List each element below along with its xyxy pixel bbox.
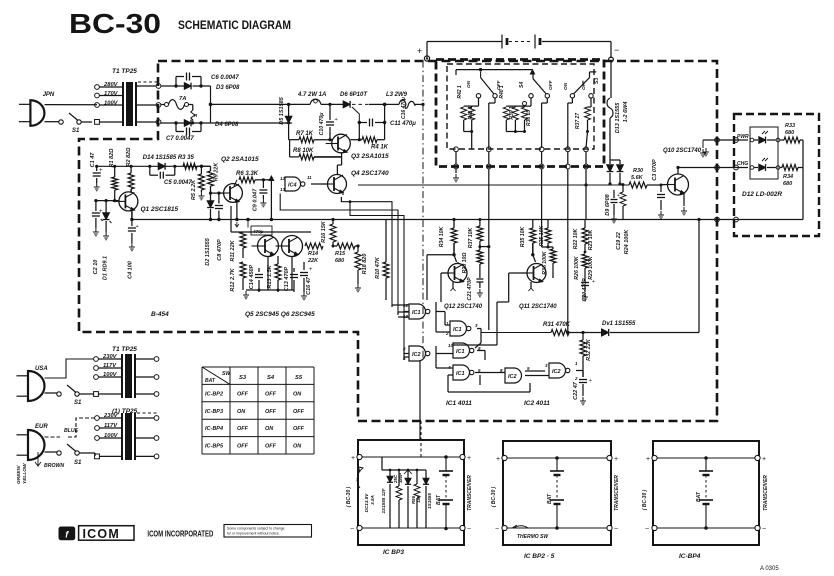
supply arrow — [269, 176, 274, 221]
svg-text:5.6K: 5.6K — [631, 175, 644, 181]
diode D4 6P08 — [161, 120, 239, 128]
svg-text:C6 0.0047: C6 0.0047 — [211, 75, 239, 81]
resistor R16 15K — [321, 218, 336, 246]
resistor R41 — [464, 106, 475, 148]
gate IC1a — [403, 303, 430, 319]
wire Q12 base — [427, 255, 454, 302]
LED PWR D12a — [750, 131, 780, 143]
svg-text:170V: 170V — [104, 91, 119, 97]
svg-text:2: 2 — [574, 376, 578, 381]
transformer T3 primary — [95, 416, 122, 459]
capacitor C7 bridge — [166, 123, 201, 142]
label 280V — [103, 82, 119, 88]
wire switch col 3 — [542, 152, 553, 247]
diode D14 — [158, 163, 165, 170]
switch unit pin circles inner — [454, 147, 589, 152]
svg-text:−: − — [614, 526, 618, 533]
label IC2 4011 — [524, 400, 550, 407]
node battery minus — [609, 45, 620, 62]
transformer T2 core — [122, 354, 135, 398]
svg-text:−: − — [467, 526, 471, 533]
svg-text:230V: 230V — [103, 413, 119, 419]
logo ICOM mark — [59, 527, 76, 541]
resistor R23 10K — [588, 229, 594, 251]
wire CHG row — [678, 165, 748, 170]
capacitor C5 0.0047 — [150, 166, 193, 186]
wire node to battery plus — [421, 61, 424, 358]
wire gate d to IC2b — [448, 373, 530, 393]
svg-text:+: + — [335, 117, 338, 123]
wire Q1 emitter — [131, 211, 133, 220]
wire plug JPN top — [45, 104, 98, 106]
svg-text:IC-BP4: IC-BP4 — [205, 426, 223, 432]
svg-text:R40 1: R40 1 — [499, 85, 505, 99]
resistor R7 1K — [289, 131, 333, 143]
label PWR — [737, 134, 749, 140]
svg-text:D14 1S1585 R3 35: D14 1S1585 R3 35 — [143, 155, 195, 161]
switch S1 EUR — [45, 444, 96, 466]
label IC-BP4 — [679, 553, 701, 560]
svg-text:R10 47K: R10 47K — [375, 256, 381, 279]
resistor R32 22K — [580, 333, 592, 378]
svg-text:S1: S1 — [74, 460, 82, 466]
svg-text:Q10 2SC1740: Q10 2SC1740 — [663, 148, 702, 154]
wire battery top — [427, 42, 611, 59]
resistor R14 22K — [302, 243, 323, 264]
title BC-30 — [69, 8, 161, 39]
diode D8 vertical — [610, 160, 623, 186]
svg-text:C7 0.0047: C7 0.0047 — [166, 136, 194, 142]
label IC BP2-5 — [524, 553, 555, 560]
plug EUR — [17, 424, 49, 460]
wire LED right rail — [802, 140, 804, 220]
capacitor C6 bridge — [176, 73, 239, 87]
svg-text:OFF: OFF — [293, 409, 305, 415]
wire IC2c out — [576, 371, 583, 378]
svg-text:R31 470K: R31 470K — [543, 322, 571, 328]
svg-text:IC-BP4: IC-BP4 — [679, 553, 701, 560]
capacitor C12 boxed — [248, 220, 272, 236]
wire secondary top row — [161, 84, 178, 87]
wire bus y232 — [231, 206, 311, 232]
gate IC2c — [545, 361, 578, 381]
label B-454 — [151, 311, 169, 318]
label D13 1S1555 — [615, 102, 621, 134]
svg-text:IC1: IC1 — [456, 349, 465, 355]
svg-text:C21 470P: C21 470P — [467, 277, 473, 301]
gate IC2a — [403, 346, 430, 361]
label D9 6P08 — [605, 193, 611, 215]
svg-text:D5 1S1585: D5 1S1585 — [279, 96, 285, 124]
resistor R8 10K — [290, 140, 342, 160]
svg-text:+: + — [99, 209, 103, 215]
transistor Q3 2SA1015 — [326, 134, 389, 160]
svg-text:R15: R15 — [335, 251, 346, 257]
svg-text:R25 10K: R25 10K — [539, 225, 545, 247]
svg-text:−: − — [495, 526, 499, 533]
resistor R9 22K — [208, 162, 220, 193]
wire USA top — [45, 359, 95, 378]
svg-text:+: + — [592, 279, 595, 285]
svg-text:TRANSCEIVER: TRANSCEIVER — [614, 475, 620, 511]
svg-text:11: 11 — [307, 175, 312, 180]
wire top rail left block — [95, 165, 210, 168]
svg-text:1S1555: 1S1555 — [427, 493, 432, 509]
capacitor C11 470P — [352, 107, 416, 127]
svg-text:( BC-30 ): ( BC-30 ) — [346, 486, 352, 507]
label D14 R3 — [143, 155, 195, 161]
svg-text:PWR: PWR — [737, 134, 749, 140]
wire gate inputs from left — [392, 305, 409, 357]
svg-text:100V: 100V — [103, 372, 118, 378]
resistor R15 680 — [332, 243, 360, 264]
gnd mark near label — [703, 148, 709, 156]
capacitor C14 450P — [249, 264, 263, 292]
capacitor C21 470P — [451, 277, 484, 301]
resistor R28 100 — [462, 247, 483, 278]
svg-text:+: + — [496, 456, 500, 463]
svg-text:−: − — [762, 526, 766, 533]
svg-text:ON: ON — [265, 426, 274, 432]
resistor R37 27 — [575, 98, 591, 148]
label switch S2 ON OFF — [466, 79, 502, 90]
label T1 TP25 — [112, 68, 137, 75]
label L2 6W4 — [623, 102, 629, 123]
svg-text:Q2 2SA1015: Q2 2SA1015 — [221, 156, 259, 163]
gate IC1b — [445, 321, 478, 336]
inductor L3 2W9 — [385, 92, 423, 108]
wire chg bus circles — [715, 217, 739, 222]
resistor R11 22K — [230, 232, 246, 262]
svg-text:A 0305: A 0305 — [760, 566, 779, 572]
wire IC2 to box1 — [419, 361, 421, 440]
wire Q12 collector to bus — [404, 262, 458, 360]
resistor R25 10K — [539, 220, 551, 249]
wire L-run C — [349, 200, 404, 349]
wire PWR row — [700, 138, 748, 157]
svg-text:R18 820: R18 820 — [362, 254, 368, 275]
wire Q1 base — [94, 199, 119, 202]
resistor R33 680 — [780, 123, 803, 143]
svg-text:117V: 117V — [104, 423, 118, 429]
diode D7 vertical — [607, 160, 614, 186]
svg-text:1-2 6W4: 1-2 6W4 — [623, 102, 629, 123]
svg-text:680: 680 — [335, 258, 344, 264]
svg-text:D1 RD9.1: D1 RD9.1 — [103, 256, 109, 280]
svg-text:S5: S5 — [295, 375, 303, 381]
svg-text:IC1: IC1 — [412, 310, 421, 316]
wire switch col 2 — [487, 152, 490, 330]
switch S1 USA — [45, 385, 95, 406]
gate IC1d — [447, 365, 481, 380]
svg-text:IC2 4011: IC2 4011 — [524, 400, 550, 407]
wire minus feed — [610, 62, 612, 98]
resistor R38 15 — [515, 102, 532, 134]
transformer T1 secondary — [136, 82, 161, 124]
svg-text:D12 LD-002R: D12 LD-002R — [742, 191, 782, 198]
svg-text:+: + — [309, 267, 313, 273]
gate IC2b — [500, 366, 530, 383]
capacitor C2 10 — [92, 201, 103, 275]
resistor R4 1K — [350, 104, 388, 150]
transistor Q2 2SA1015 — [218, 156, 259, 202]
svg-text:SCHEMATIC DIAGRAM: SCHEMATIC DIAGRAM — [178, 20, 291, 32]
svg-text:IC4: IC4 — [288, 182, 297, 188]
svg-text:R4 1K: R4 1K — [371, 145, 389, 151]
svg-text:C5 0.0047: C5 0.0047 — [164, 180, 192, 186]
svg-text:+: + — [417, 46, 422, 56]
svg-text:100V: 100V — [104, 433, 119, 439]
svg-text:OFF: OFF — [265, 444, 277, 450]
svg-text:R16 15K: R16 15K — [321, 220, 327, 243]
transformer T2 primary — [94, 357, 122, 397]
wire Q2 emitter — [235, 202, 239, 228]
svg-text:T1 TP25: T1 TP25 — [112, 346, 137, 353]
svg-text:C22 47: C22 47 — [573, 381, 579, 400]
label BROWN — [44, 463, 64, 469]
svg-text:R6 3.3K: R6 3.3K — [236, 171, 259, 177]
switch S2 — [476, 72, 497, 149]
svg-text:R2 82Ω: R2 82Ω — [126, 147, 132, 167]
wire IC4 to Q4 — [311, 183, 328, 185]
transformer T3 secondary — [135, 413, 159, 459]
resistor R35 10K — [520, 220, 536, 263]
svg-text:−: − — [645, 526, 649, 533]
wire Q10 emitter gnd — [681, 193, 687, 215]
battery B1 — [502, 35, 540, 49]
diode D6 6P10T — [340, 92, 386, 108]
wire gate a out — [436, 312, 450, 333]
wire Q5 Q6 emitters — [243, 257, 294, 299]
wire Q10 collector — [676, 166, 679, 174]
transistor Q1 2SC1815 — [113, 192, 179, 213]
fine print box — [224, 525, 312, 538]
svg-text:R32 22K: R32 22K — [586, 338, 592, 361]
svg-text:280V: 280V — [103, 82, 119, 88]
wire IC2b to IC2c — [525, 371, 549, 376]
capacitor C4 100 — [128, 220, 139, 279]
label GREEN YELLOW — [16, 452, 41, 484]
wire EUR top — [45, 418, 96, 437]
svg-text:+: + — [614, 456, 618, 463]
svg-text:D2 1S1555: D2 1S1555 — [205, 237, 211, 265]
svg-text:OFF: OFF — [293, 426, 305, 432]
svg-text:for or improvement without not: for or improvement without notice. — [227, 532, 280, 536]
svg-text:D3 6P08: D3 6P08 — [216, 85, 240, 91]
indicator inner box — [750, 127, 778, 179]
battery box IC BP3 — [346, 421, 473, 545]
svg-text:13: 13 — [280, 187, 286, 192]
svg-text:SW: SW — [222, 371, 231, 377]
wire main bus y219 — [130, 218, 803, 221]
svg-text:3.5A: 3.5A — [370, 495, 375, 505]
logo ICOM boxed — [79, 526, 134, 541]
battery box IC-BP4 — [642, 441, 769, 545]
svg-text:−: − — [614, 45, 619, 55]
resistor R31 470K — [543, 322, 601, 336]
battery box IC BP2-5 — [491, 441, 620, 545]
svg-text:EUR: EUR — [35, 424, 48, 430]
label T3 TP25 — [112, 408, 138, 415]
subtitle SCHEMATIC DIAGRAM — [178, 20, 291, 32]
capacitor C3 070P — [652, 159, 665, 219]
svg-text:( BC-30 ): ( BC-30 ) — [642, 489, 648, 510]
svg-text:1S1555 12F: 1S1555 12F — [381, 488, 386, 513]
svg-text:( BC-30 ): ( BC-30 ) — [491, 486, 497, 507]
svg-text:R24 100K: R24 100K — [624, 229, 630, 255]
label C16 470u — [401, 97, 407, 119]
svg-text:BROWN: BROWN — [44, 463, 64, 469]
svg-text:Some components subject to cha: Some components subject to change — [227, 527, 285, 531]
diode Dv1 1S1555 — [602, 218, 701, 336]
switch unit outer dashed box — [436, 60, 604, 167]
svg-text:S3: S3 — [594, 78, 600, 84]
svg-text:IC1 4011: IC1 4011 — [446, 400, 472, 407]
resistor R39 — [506, 106, 518, 133]
fuse 7A — [161, 96, 198, 123]
svg-text:IC BP3: IC BP3 — [383, 549, 404, 556]
svg-text:R11 22K: R11 22K — [230, 239, 236, 261]
svg-text:+: + — [467, 455, 471, 462]
svg-text:R26 100K: R26 100K — [574, 255, 580, 280]
label T3 100V — [104, 433, 119, 439]
logo ICOM INCORPORATED — [147, 529, 213, 539]
svg-text:+: + — [589, 378, 592, 384]
LED CHG D12b — [750, 158, 780, 171]
svg-text:10: 10 — [448, 343, 454, 348]
svg-text:S1: S1 — [74, 400, 82, 406]
switch S1 (JPN) — [59, 113, 92, 134]
label C19 22 — [616, 232, 622, 250]
resistor R40 — [499, 85, 531, 131]
svg-text:R37 10K: R37 10K — [468, 227, 474, 249]
svg-text:22K: 22K — [307, 258, 319, 264]
svg-text:ON: ON — [293, 444, 302, 450]
svg-text:OFF: OFF — [237, 444, 249, 450]
svg-text:+: + — [646, 456, 650, 463]
transformer T1 primary terminals — [95, 85, 123, 125]
svg-text:100V: 100V — [104, 101, 119, 107]
wire switch feed — [456, 68, 535, 75]
capacitor C19 22 — [611, 190, 621, 223]
svg-text:680: 680 — [783, 181, 792, 187]
svg-text:C2 10: C2 10 — [93, 260, 99, 275]
capacitor C10 470u — [319, 103, 338, 141]
capacitor C20 470P — [581, 278, 595, 302]
svg-text:T1 TP25: T1 TP25 — [112, 68, 137, 75]
label T3 230V — [103, 413, 119, 419]
capacitor C13 470P — [284, 266, 298, 292]
diode D2 1S1555 — [205, 193, 214, 266]
svg-text:CHG: CHG — [737, 161, 748, 167]
svg-text:C13 470P: C13 470P — [284, 266, 290, 291]
svg-text:B-454: B-454 — [151, 311, 169, 318]
capacitor C22 47 — [573, 378, 592, 405]
svg-text:D13 1S1555: D13 1S1555 — [615, 102, 621, 134]
svg-text:S3: S3 — [239, 375, 247, 381]
svg-text:OFF: OFF — [265, 409, 277, 415]
wire L-run A — [341, 197, 392, 305]
label 100V — [104, 101, 119, 107]
svg-text:R5 2.2K: R5 2.2K — [191, 179, 197, 200]
resistor R26 100K — [574, 251, 588, 280]
resistor R42 — [457, 85, 479, 131]
resistor R34b 10K — [439, 218, 457, 262]
svg-text:S4: S4 — [267, 375, 275, 381]
svg-text:USA: USA — [35, 366, 48, 372]
svg-text:ON: ON — [466, 80, 472, 88]
transistor Q10 2SC1740 — [661, 148, 702, 195]
svg-text:THERMO SW: THERMO SW — [517, 534, 549, 540]
svg-text:R34 10K: R34 10K — [439, 226, 445, 248]
svg-text:YELLOW: YELLOW — [22, 463, 28, 484]
svg-text:ON: ON — [563, 82, 569, 90]
svg-text:Q1 2SC1815: Q1 2SC1815 — [141, 206, 179, 213]
node battery plus — [417, 46, 430, 61]
resistor R1 82 — [109, 148, 118, 201]
svg-text:R1 82Ω: R1 82Ω — [109, 148, 115, 168]
switch unit pin circles outer — [454, 164, 589, 169]
label T2 230V — [102, 354, 118, 360]
svg-text:IC2: IC2 — [508, 374, 517, 380]
svg-text:Q12 2SC1740: Q12 2SC1740 — [444, 304, 483, 310]
transistor Q11 2SC1740 — [519, 264, 557, 311]
wire gate b out — [475, 329, 551, 349]
resistor R36 100K — [542, 247, 556, 278]
svg-text:R30: R30 — [633, 168, 643, 174]
label BLUE — [64, 428, 79, 434]
resistor R10 47K — [375, 219, 389, 300]
capacitor C9 0.047 — [253, 180, 268, 211]
svg-text:Q5 2SC945 Q6 2SC945: Q5 2SC945 Q6 2SC945 — [245, 311, 315, 318]
diode D1 RD9.1 zener — [101, 201, 112, 280]
svg-text:Q3 2SA1015: Q3 2SA1015 — [351, 153, 389, 160]
svg-text:C10 470μ: C10 470μ — [319, 112, 325, 136]
svg-text:R33: R33 — [785, 123, 795, 129]
svg-text:TRANSCEIVER: TRANSCEIVER — [763, 475, 769, 511]
switch S4 — [519, 74, 554, 148]
switch unit inner dashed box — [447, 64, 594, 149]
svg-text:R37 27: R37 27 — [575, 113, 581, 129]
label A 0305 — [760, 566, 779, 572]
svg-text:IC2: IC2 — [412, 352, 421, 358]
label IC1 4011 — [446, 400, 472, 407]
resistor R13 1.5K — [267, 256, 281, 292]
label 170V — [104, 91, 119, 97]
svg-text:C4 100: C4 100 — [128, 261, 134, 279]
wire switch col grounds — [453, 152, 459, 182]
svg-text:C3 070P: C3 070P — [652, 159, 658, 181]
svg-text:C8 470P: C8 470P — [217, 239, 223, 261]
indicator unit D12 dashed box — [734, 114, 819, 236]
wire Q2 base row — [209, 192, 224, 195]
svg-text:IC2: IC2 — [552, 369, 561, 375]
transformer T3 core — [122, 413, 135, 460]
resistor R2 82 — [126, 147, 134, 192]
label CHG — [737, 161, 748, 167]
svg-text:OFF: OFF — [237, 391, 249, 397]
svg-text:ON: ON — [237, 409, 246, 415]
wire L-run B — [280, 194, 398, 313]
svg-text:230V: 230V — [102, 354, 118, 360]
svg-text:D9 6P08: D9 6P08 — [605, 193, 611, 215]
plug JPN — [19, 92, 55, 126]
svg-text:R42 1: R42 1 — [457, 85, 463, 99]
svg-text:R22 10K: R22 10K — [573, 228, 579, 250]
transistor Q6 2SC945 — [276, 236, 303, 257]
resistor R22 10K — [573, 220, 588, 253]
main circuit dashed border — [79, 61, 717, 421]
